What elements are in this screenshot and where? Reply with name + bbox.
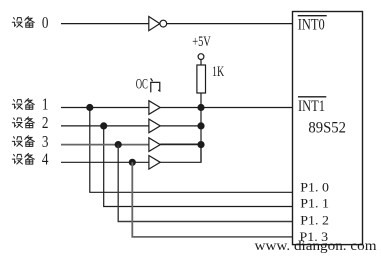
label 设备3 [12, 132, 48, 151]
wire: 设备2 drop to P1.1 [104, 126, 293, 207]
OC gate G1 (buffer triangle) [149, 101, 160, 115]
OC gate G4 (buffer triangle) [149, 156, 160, 170]
pin label INT0 overline [298, 15, 327, 17]
svg-text:4: 4 [42, 150, 49, 169]
junction dot: bus at G3 output [197, 141, 204, 148]
wire: resistor bottom to INT1 bus [200, 93, 202, 108]
label 设备1 [12, 95, 48, 114]
svg-text:P1. 2: P1. 2 [300, 213, 329, 228]
wire: +5V terminal to resistor [200, 60, 202, 66]
label 设备2 [12, 113, 48, 132]
wire: gate G4 output up to bus [160, 145, 201, 163]
IC U1 89S52 body [293, 12, 363, 245]
wire: 设备4 input line [61, 161, 149, 163]
svg-text:+5V: +5V [192, 34, 211, 50]
+5V terminal circle [198, 54, 204, 60]
wire: gate G1 output to INT1 pin [160, 107, 292, 109]
pin label INT1 overline [298, 96, 326, 98]
label OC门 [136, 77, 160, 93]
label 设备4 [12, 150, 49, 169]
junction dot: 设备3 tap [115, 141, 122, 148]
bus vertical wire (wired-AND of OC outputs) [200, 108, 202, 163]
svg-text:1K: 1K [212, 64, 225, 80]
wire: 设备3 input line [61, 144, 149, 146]
svg-text:P1. 0: P1. 0 [300, 180, 329, 195]
wire: 设备2 input line [61, 125, 149, 127]
svg-text:1: 1 [42, 95, 49, 114]
svg-text:89S52: 89S52 [308, 119, 346, 136]
svg-text:OC: OC [136, 77, 148, 93]
wire: 设备1 drop to P1.0 [90, 108, 293, 193]
wire: 设备1 input line [61, 107, 149, 109]
svg-text:3: 3 [42, 132, 49, 151]
wire: 设备0 to inverter input [61, 23, 149, 25]
svg-text:P1. 1: P1. 1 [300, 196, 329, 211]
resistor R1 1K body [197, 65, 206, 93]
junction dot: bus at G2 output [197, 122, 204, 129]
label 设备0 [12, 13, 48, 32]
svg-text:INT0: INT0 [298, 17, 325, 34]
wire: 设备4 drop to P1.3 [132, 162, 292, 237]
OC gate G2 (buffer triangle) [149, 119, 160, 133]
junction dot: 设备1 tap [86, 104, 93, 111]
wire: gate G2 output to bus [160, 125, 201, 127]
inverter U0 triangle [149, 17, 160, 31]
svg-text:www. diangon. com: www. diangon. com [255, 239, 377, 254]
junction dot: bus at G1 output [197, 104, 204, 111]
wire: gate G3 output to bus [160, 143, 201, 145]
svg-text:INT1: INT1 [298, 98, 325, 115]
wire: inverter output to INT0 pin [167, 23, 293, 25]
wire: 设备3 drop to P1.2 [118, 145, 292, 222]
svg-text:0: 0 [42, 13, 49, 32]
inverter output bubble [160, 20, 167, 27]
junction dot: 设备4 tap [129, 159, 136, 166]
OC gate G3 (buffer triangle) [149, 138, 160, 152]
junction dot: 设备2 tap [100, 122, 107, 129]
svg-text:2: 2 [42, 113, 49, 132]
